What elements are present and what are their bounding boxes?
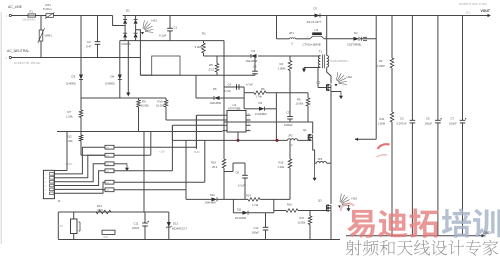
- svg-text:1N4148W: 1N4148W: [205, 202, 217, 205]
- svg-text:CTX16=18A5B: CTX16=18A5B: [303, 42, 321, 46]
- zener D13: [168, 212, 170, 222]
- svg-text:4.7nF: 4.7nF: [246, 83, 253, 87]
- diode D1a: [123, 20, 127, 24]
- wire bulk rectangle: [152, 56, 180, 75]
- svg-text:10.00k: 10.00k: [298, 221, 306, 225]
- svg-text:JP1: JP1: [289, 31, 294, 35]
- wire long vert x224: [223, 41, 225, 141]
- resistor R1: [203, 41, 205, 44]
- svg-text:1.00k: 1.00k: [278, 165, 285, 169]
- GND arrow: [482, 234, 485, 237]
- svg-text:J1: J1: [58, 199, 61, 203]
- svg-text:R12: R12: [67, 135, 73, 139]
- svg-text:1.00M: 1.00M: [377, 64, 385, 68]
- svg-text:U3: U3: [315, 28, 319, 32]
- wire T1 left top: [319, 55, 321, 58]
- wire bridge minus row: [120, 40, 224, 42]
- resistor R2 line: [391, 16, 393, 59]
- svg-text:+12V: +12V: [159, 151, 165, 154]
- svg-text:D10: D10: [210, 193, 215, 197]
- svg-text:R11: R11: [380, 117, 385, 121]
- wire U1 pin4 long row: [57, 131, 223, 133]
- wire R12 to box2: [80, 141, 82, 155]
- left edge scan artifact: [0, 12, 2, 244]
- resistor R12: [79, 135, 83, 141]
- wire Q1 gate: [306, 139, 308, 141]
- svg-text:4.7uF: 4.7uF: [224, 89, 231, 93]
- svg-text:HS1: HS1: [152, 19, 158, 23]
- svg-text:JP2: JP2: [288, 134, 293, 138]
- svg-text:C5: C5: [400, 117, 404, 121]
- svg-text:C3: C3: [253, 65, 257, 69]
- connector J1 body: [43, 170, 54, 198]
- diode D2: [354, 37, 360, 41]
- wire bridge right chain: [135, 16, 137, 20]
- wire loop bottom: [233, 212, 242, 214]
- wire loop sides: [232, 199, 234, 212]
- wire T1 right top to rail: [326, 16, 328, 56]
- junction dot U1 bottom: [237, 139, 240, 142]
- svg-text:JP3: JP3: [318, 157, 323, 161]
- svg-text:R15: R15: [279, 161, 284, 165]
- svg-text:C6: C6: [426, 117, 430, 121]
- svg-text:C1: C1: [174, 26, 178, 30]
- svg-text:PS1: PS1: [58, 224, 63, 228]
- wire bias diode row: [196, 97, 214, 99]
- wire clamp loop bottom: [244, 108, 259, 110]
- svg-text:R13: R13: [97, 204, 102, 208]
- wire T1 left bottom row: [319, 66, 321, 68]
- wire Q2 gate: [318, 87, 327, 89]
- resistor R20 box: [102, 230, 115, 234]
- box component column: [105, 145, 114, 149]
- svg-text:1.00M: 1.00M: [378, 122, 386, 126]
- diode D6 line: [119, 41, 121, 75]
- ground arrow Q2 aux: [331, 91, 341, 93]
- wire vert x58: [57, 212, 59, 240]
- svg-text:R2: R2: [379, 59, 383, 63]
- resistor R7: [80, 98, 82, 110]
- svg-text:D11: D11: [237, 209, 242, 212]
- svg-text:D6: D6: [111, 75, 115, 79]
- svg-text:R8: R8: [297, 98, 301, 102]
- svg-text:D1: D1: [126, 8, 130, 12]
- ferrite bead U3: [310, 36, 324, 39]
- diode D7: [315, 14, 321, 18]
- diode D1c: [134, 20, 138, 24]
- output arrow VOUT: [488, 14, 491, 17]
- svg-text:AC INPUT: 85 - 265 VAC: AC INPUT: 85 - 265 VAC: [14, 62, 41, 65]
- svg-text:F1: F1: [30, 9, 34, 13]
- svg-text:R10: R10: [158, 100, 164, 104]
- svg-text:D2: D2: [354, 31, 358, 35]
- svg-text:VOUT: VOUT: [481, 9, 491, 13]
- svg-text:R19: R19: [211, 161, 216, 165]
- svg-text:100uF: 100uF: [449, 122, 457, 126]
- wire bridge left chain: [124, 16, 126, 20]
- wire clamp loop right: [275, 93, 277, 109]
- wire box right outputs: [114, 146, 196, 148]
- svg-text:Q2: Q2: [317, 81, 321, 85]
- wire Q3 drain: [330, 163, 332, 201]
- resistor R5: [216, 56, 218, 64]
- svg-text:CDZT9808L: CDZT9808L: [347, 42, 362, 46]
- svg-text:C12: C12: [254, 226, 259, 230]
- svg-text:1N4148W: 1N4148W: [210, 101, 222, 105]
- svg-text:AT9776BB: AT9776BB: [228, 107, 241, 111]
- wire gate row y140: [172, 139, 287, 141]
- svg-text:5 Ohm: 5 Ohm: [43, 7, 52, 11]
- capacitor C2: [97, 16, 99, 42]
- D2 cathode marks: [363, 36, 367, 38]
- capacitor C5: [411, 16, 413, 121]
- watermark gray text: [346, 240, 499, 256]
- svg-text:100pF: 100pF: [252, 230, 260, 234]
- wire U1 pin2 row: [166, 119, 223, 121]
- svg-text:D3: D3: [72, 75, 76, 79]
- diode D3: [79, 75, 83, 80]
- capacitor C7: [462, 16, 464, 121]
- thermistor RT1: [46, 14, 54, 18]
- capacitor C11: [144, 212, 146, 223]
- wire AC line drop to bridge: [113, 16, 126, 26]
- wire neutral stub to bulk: [140, 74, 151, 76]
- wire Q1 source down: [313, 146, 315, 163]
- power arrow bridge minus: [126, 93, 130, 97]
- wire bias vert x196: [195, 75, 197, 98]
- svg-text:Q3: Q3: [318, 199, 322, 203]
- svg-text:10.00k: 10.00k: [156, 104, 165, 108]
- jumper JP3: [317, 162, 327, 164]
- diode D11: [243, 211, 249, 215]
- svg-text:R16: R16: [287, 203, 292, 207]
- svg-text:R1: R1: [202, 32, 206, 36]
- heatsink HS2: [336, 72, 347, 84]
- capacitor C8: [244, 163, 246, 175]
- U1 bottom stub: [237, 132, 239, 140]
- wire bottom row212: [58, 211, 169, 213]
- watermark logo curl: [341, 204, 355, 212]
- terminal AC_NEUTRAL: [9, 56, 11, 58]
- svg-text:J2-1: J2-1: [466, 10, 472, 14]
- diode D1d: [134, 33, 138, 37]
- watermark red text: [347, 209, 438, 238]
- svg-text:C11: C11: [134, 222, 139, 226]
- svg-text:HS2: HS2: [347, 75, 353, 79]
- U1 left pins: [223, 114, 228, 116]
- svg-text:10.00k: 10.00k: [141, 104, 150, 108]
- svg-text:1.00k: 1.00k: [66, 139, 73, 143]
- resistor R4: [289, 56, 291, 61]
- svg-text:T1: T1: [319, 50, 323, 54]
- buzzer PS1: [71, 219, 78, 234]
- svg-text:OUTPUT 20V, 0.75A: OUTPUT 20V, 0.75A: [459, 2, 487, 6]
- svg-text:CTX16-92545K3: CTX16-92545K3: [329, 59, 349, 63]
- svg-text:VAR1: VAR1: [45, 34, 53, 38]
- svg-text:U1: U1: [233, 103, 237, 107]
- svg-text:C9: C9: [287, 111, 291, 115]
- resistor R11: [390, 112, 394, 122]
- svg-text:D5: D5: [213, 87, 217, 91]
- svg-text:C8: C8: [236, 171, 240, 175]
- svg-text:1.74k: 1.74k: [252, 203, 259, 207]
- svg-text:C7: C7: [451, 117, 455, 121]
- svg-text:AC_LINE: AC_LINE: [8, 5, 23, 9]
- diode D5: [214, 96, 220, 100]
- capacitor C4: [236, 84, 238, 90]
- ground arrow jp3: [314, 163, 316, 178]
- diode D9: [259, 107, 265, 111]
- capacitor C9: [287, 116, 293, 118]
- svg-text:1.74k: 1.74k: [256, 95, 263, 99]
- svg-text:1N4005: 1N4005: [105, 82, 115, 86]
- wire clamp loop top: [244, 92, 254, 94]
- svg-text:10.00k: 10.00k: [296, 102, 304, 106]
- resistor R9: [138, 98, 140, 100]
- diode D6: [118, 75, 122, 80]
- U1 right pins: [246, 114, 251, 116]
- svg-text:25.2: 25.2: [212, 165, 218, 169]
- svg-text:3.3Mb: 3.3Mb: [195, 45, 203, 49]
- wire jp3 row: [315, 162, 317, 164]
- svg-text:1N4005: 1N4005: [66, 82, 76, 86]
- wire vert x144 long: [143, 132, 145, 213]
- wire bridge AC right to neutral: [136, 30, 141, 75]
- svg-text:0.47: 0.47: [86, 45, 92, 49]
- wire bias row: [204, 55, 252, 57]
- svg-text:GND: GND: [484, 231, 492, 235]
- net arrow fb: [355, 138, 358, 141]
- svg-text:C2: C2: [87, 40, 91, 44]
- heatsink HS3: [340, 194, 351, 206]
- svg-text:D7: D7: [314, 7, 318, 11]
- jumper JP1: [290, 38, 296, 39]
- resistor R15: [289, 140, 291, 159]
- connector J1 pins: [50, 173, 55, 176]
- svg-text:RUN: RUN: [194, 151, 200, 154]
- capacitor C3: [254, 56, 256, 71]
- resistor R16: [286, 209, 298, 213]
- wire J1 top link: [54, 170, 67, 172]
- svg-text:1000pF: 1000pF: [284, 123, 293, 127]
- terminal AC_LINE: [9, 14, 11, 16]
- svg-text:1N4148W: 1N4148W: [235, 217, 247, 220]
- capacitor C12: [265, 213, 267, 228]
- transistor Q3: [326, 205, 328, 211]
- wire clamp to gate row: [275, 109, 277, 141]
- wire top rail: [123, 15, 488, 17]
- svg-text:BZX84C13-7: BZX84C13-7: [172, 227, 188, 231]
- svg-text:28.5: 28.5: [98, 208, 104, 212]
- svg-text:R4: R4: [280, 62, 284, 66]
- capacitor C6: [437, 16, 439, 121]
- svg-text:2A/250VAC: 2A/250VAC: [23, 19, 36, 22]
- diode D4: [251, 54, 257, 58]
- resistor R8: [306, 98, 310, 106]
- wire vert x186: [185, 140, 187, 199]
- svg-text:C4: C4: [228, 83, 232, 87]
- resistor R17: [309, 211, 311, 217]
- diode D1b: [123, 33, 127, 37]
- svg-text:0.1uF: 0.1uF: [159, 34, 167, 38]
- svg-text:4.7uF: 4.7uF: [238, 184, 245, 188]
- svg-text:0.047uF: 0.047uF: [397, 122, 407, 126]
- svg-text:Q1: Q1: [303, 128, 307, 132]
- svg-text:R7: R7: [68, 110, 72, 114]
- wire T1 right bottom to Q2: [327, 67, 331, 79]
- jumper JP2: [288, 139, 298, 141]
- svg-text:1.00M: 1.00M: [278, 67, 286, 71]
- svg-text:D13: D13: [173, 222, 178, 226]
- wire AC line: [11, 15, 28, 17]
- wire jp1 row: [277, 38, 290, 40]
- ground arrow near Q3: [348, 205, 350, 209]
- wire rail drop x276: [276, 16, 278, 39]
- watermark blue text: [442, 208, 500, 237]
- svg-text:SS-16 437T: SS-16 437T: [307, 20, 322, 24]
- svg-text:23.2: 23.2: [209, 68, 215, 72]
- wire row122: [224, 121, 313, 123]
- IC U1 box: [227, 111, 246, 133]
- resistor R6: [254, 91, 266, 95]
- svg-text:R14: R14: [246, 193, 251, 197]
- svg-text:220nF: 220nF: [132, 226, 140, 230]
- wire clamp loop left: [243, 87, 245, 109]
- svg-text:R5: R5: [209, 63, 213, 67]
- fuse F1: [28, 14, 36, 17]
- wire primary return y98: [81, 97, 166, 99]
- wire U1 pin3 row: [172, 124, 222, 126]
- ground arrow box3: [126, 164, 128, 168]
- junction dot gate row: [276, 139, 279, 142]
- svg-text:R17: R17: [300, 216, 305, 220]
- wire row87: [224, 86, 244, 88]
- svg-text:R20: R20: [104, 236, 109, 239]
- svg-text:R6: R6: [261, 87, 265, 91]
- svg-text:1N4148W: 1N4148W: [246, 59, 258, 63]
- ground arrow T1 left: [302, 69, 306, 73]
- wire U1 pin1 row: [196, 114, 222, 116]
- capacitor C1: [169, 16, 171, 29]
- diode D10: [212, 197, 218, 201]
- wire fb vert x376: [375, 16, 377, 140]
- diode D3 line: [80, 16, 82, 75]
- transistor Q2: [326, 84, 328, 90]
- wire fb row: [355, 138, 376, 140]
- watermark red swoosh: [378, 144, 390, 149]
- svg-text:1N4148W: 1N4148W: [255, 112, 267, 116]
- svg-text:100uF: 100uF: [425, 122, 433, 126]
- resistor R10: [165, 98, 167, 100]
- transformer T1: [318, 56, 320, 68]
- svg-text:D9: D9: [259, 101, 263, 105]
- svg-text:R9: R9: [142, 100, 146, 104]
- wire gate row Q3: [274, 210, 286, 212]
- svg-text:DF06S: DF06S: [122, 42, 131, 46]
- wire bottom rail left: [58, 239, 340, 241]
- wire bottom rail right: [346, 235, 482, 237]
- resistor R19: [223, 140, 225, 159]
- svg-text:1.00k: 1.00k: [66, 115, 73, 119]
- svg-text:D4: D4: [252, 49, 256, 53]
- wire pin fan: [63, 147, 105, 174]
- varistor VAR1: [40, 16, 42, 31]
- svg-text:HS3: HS3: [352, 197, 358, 201]
- wire loop top row: [186, 198, 212, 200]
- wire bias bottom row: [140, 74, 255, 76]
- wire bridge minus drop: [127, 41, 129, 93]
- wire AC neutral: [11, 57, 140, 59]
- heatsink HS1: [143, 20, 154, 32]
- resistor R14: [248, 198, 260, 202]
- transistor Q1: [307, 134, 309, 140]
- resistor R13: [96, 210, 111, 214]
- svg-text:AC_NEUTRAL: AC_NEUTRAL: [7, 49, 30, 53]
